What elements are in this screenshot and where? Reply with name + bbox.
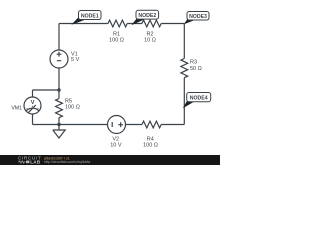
label R5 value (65, 99, 80, 111)
node flag NODE1 (71, 11, 101, 25)
wire top rail (59, 23, 184, 25)
svg-text:VM1: VM1 (11, 106, 22, 112)
svg-text:50 Ω: 50 Ω (190, 66, 202, 72)
node flag NODE4 (183, 93, 211, 109)
label V1 value (71, 51, 80, 63)
voltage source V1 (50, 50, 68, 68)
ground (53, 125, 65, 139)
svg-text:NODE1: NODE1 (81, 13, 99, 19)
label R4 value (143, 137, 158, 149)
voltmeter VM1 (24, 97, 41, 114)
node flag NODE3 (184, 12, 209, 25)
node junction at left rail top of R5 (57, 88, 60, 91)
watermark CircuitLab logo (18, 155, 41, 164)
svg-text:http://circuitlab.com/c/hq3ddw: http://circuitlab.com/c/hq3ddw (44, 160, 91, 164)
svg-text:NODE2: NODE2 (138, 13, 156, 19)
watermark bar (0, 155, 220, 165)
svg-text:10 Ω: 10 Ω (144, 38, 156, 44)
svg-text:100 Ω: 100 Ω (65, 104, 80, 110)
svg-text:NODE3: NODE3 (189, 14, 207, 20)
node junction at ground (57, 123, 60, 126)
resistor R5 (56, 99, 63, 118)
svg-text:10 V: 10 V (110, 143, 122, 149)
label R3 value (190, 60, 202, 73)
svg-text:NODE4: NODE4 (190, 95, 208, 101)
resistor R2 (142, 20, 161, 27)
svg-text:V: V (31, 100, 35, 106)
svg-text:100 Ω: 100 Ω (109, 38, 124, 44)
resistor R3 (181, 59, 188, 78)
resistor R1 (108, 20, 127, 27)
svg-text:100 Ω: 100 Ω (143, 143, 158, 149)
voltage source V2 (108, 116, 126, 134)
label VM1 (11, 100, 34, 111)
svg-text:LAB: LAB (30, 160, 41, 165)
label R2 value (144, 32, 156, 44)
label R1 value (109, 32, 124, 44)
wire left rail (58, 24, 60, 125)
svg-text:5 V: 5 V (71, 57, 80, 63)
wire voltmeter branch (33, 90, 60, 125)
resistor R4 (142, 121, 161, 128)
label V2 value (110, 137, 122, 149)
svg-text:R3: R3 (190, 60, 197, 66)
node flag NODE2 (131, 10, 158, 25)
wire right rail (183, 24, 185, 125)
wire bottom rail (33, 124, 185, 126)
watermark credits (44, 156, 91, 164)
